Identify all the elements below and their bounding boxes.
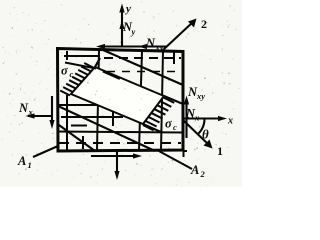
wire: horizontal bar y=132 bbox=[58, 132, 182, 133]
scan speckle bbox=[2, 2, 240, 186]
top shear arrowhead left #2 bbox=[138, 44, 147, 49]
wire: short vertical bar x=174 top bbox=[173, 52, 175, 64]
wire: horizontal bar y=105 bbox=[58, 104, 114, 106]
wire: A1 leader line bbox=[33, 146, 58, 157]
wire: crack line above strut bbox=[103, 50, 183, 85]
y axis arrowhead bbox=[119, 4, 124, 13]
svg-text:xy: xy bbox=[155, 42, 164, 52]
box: element outline bbox=[58, 49, 184, 152]
svg-text:σ: σ bbox=[61, 64, 69, 78]
wire: strut bottom crack extension right bbox=[143, 124, 162, 133]
wire: strut top crack extension right bbox=[164, 96, 183, 104]
wire: horizontal bar y=117 bbox=[61, 116, 123, 118]
1 axis arrowhead bbox=[204, 140, 213, 149]
svg-text:σ: σ bbox=[165, 117, 173, 131]
wire: vertical grid bar x=67 top stub bbox=[66, 51, 68, 60]
N_x left force arrow bbox=[28, 115, 52, 117]
svg-text:c: c bbox=[173, 122, 177, 132]
2 axis arrow bbox=[163, 21, 194, 50]
svg-text:c: c bbox=[70, 69, 74, 79]
N_y bottom force arrow bbox=[116, 151, 118, 174]
N_y bottom arrowhead (down) bbox=[114, 171, 119, 180]
svg-text:1: 1 bbox=[217, 144, 223, 158]
svg-text:A: A bbox=[190, 163, 199, 177]
wire: crack line below strut bbox=[58, 106, 155, 151]
wire: dashed horizontal bar y=58 bbox=[104, 57, 181, 59]
wire: top shear arrow line bbox=[99, 45, 167, 47]
wire: A2 leader line bbox=[157, 150, 192, 169]
svg-text:x: x bbox=[28, 107, 34, 117]
wire: vertical grid bar x=97 bbox=[97, 51, 99, 150]
svg-text:2: 2 bbox=[201, 17, 207, 31]
svg-text:N: N bbox=[18, 101, 29, 115]
left edge shear arrowhead (down) bbox=[49, 120, 54, 129]
wire: bottom shear arrow line bbox=[91, 155, 136, 157]
wire: vertical grid bar x=67 lower bbox=[66, 95, 68, 150]
1 axis arrow bbox=[183, 120, 209, 145]
svg-text:y: y bbox=[131, 27, 136, 37]
N_y top force arrow (arrowhead on y axis shaft) bbox=[119, 20, 124, 29]
wire: vertical grid bar x=162 bbox=[161, 51, 163, 150]
theta arc bbox=[199, 119, 205, 134]
wire: vertical grid bar x=141 bbox=[139, 51, 142, 150]
wire: left edge shear arrow bbox=[51, 96, 53, 123]
y axis bbox=[121, 8, 123, 47]
wire: strut top crack extension left bbox=[65, 63, 96, 69]
svg-text:y: y bbox=[124, 3, 131, 15]
hatching: sigma_c ticks at strut right end bbox=[143, 98, 174, 131]
wire: dashed horizontal bar y=143 bbox=[59, 142, 181, 144]
wire: short dash bar y=125 bbox=[71, 125, 87, 127]
bottom shear arrowhead (right) bbox=[133, 153, 142, 158]
concrete strut (white rotated rectangle) bbox=[71, 67, 164, 124]
N_xy right edge shear arrow bbox=[185, 99, 187, 138]
top shear arrowhead left #1 bbox=[96, 44, 105, 49]
svg-text:N: N bbox=[145, 36, 156, 50]
x axis bbox=[183, 117, 223, 119]
N_x left arrowhead bbox=[26, 113, 35, 118]
wire: dashed horizontal bar y=71 bbox=[107, 71, 182, 73]
svg-text:θ: θ bbox=[202, 127, 209, 142]
wire: horizontal bar y=56 top-left bbox=[64, 55, 100, 57]
svg-text:xy: xy bbox=[196, 91, 205, 101]
x axis arrowhead bbox=[218, 116, 227, 121]
2 axis arrowhead bbox=[188, 19, 197, 28]
svg-text:2: 2 bbox=[200, 169, 206, 179]
wire: box corner overshoot bottom-right bbox=[183, 150, 185, 157]
wire: strut left end edge extension up bbox=[95, 58, 100, 67]
svg-text:1: 1 bbox=[28, 160, 32, 170]
N_xy right arrowhead (up) bbox=[184, 96, 189, 105]
hatching: sigma_c ticks at strut left end bbox=[60, 63, 94, 96]
wire: short vertical bar x=83 bottom bbox=[82, 136, 84, 149]
wire: thick overdraw on strut top edge bbox=[103, 71, 120, 79]
wire: crack line bottom-left corner bbox=[58, 124, 96, 151]
svg-text:x: x bbox=[227, 116, 233, 127]
wire: vertical bar x=113 center bbox=[112, 108, 114, 126]
